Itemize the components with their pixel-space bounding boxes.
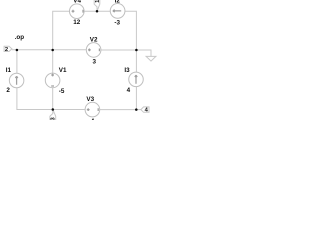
wire V1 branch lower	[52, 88, 54, 110]
wire V1 branch upper	[52, 50, 54, 73]
wire I1 branch lower + bottom rail left	[17, 88, 53, 110]
svg-text:4: 4	[127, 87, 131, 94]
svg-text:3: 3	[93, 58, 97, 65]
current source I1 symbol	[9, 73, 24, 88]
current source I2 symbol	[110, 4, 125, 19]
voltage source V1 symbol	[45, 73, 60, 88]
wire middle rail right: V2 to right junction	[101, 49, 136, 51]
junction node 3 dot	[52, 108, 55, 111]
svg-text:.op: .op	[15, 34, 25, 41]
junction right dot	[135, 49, 138, 52]
wire stub to flag4	[136, 109, 141, 111]
flag node 3 outline	[50, 110, 56, 122]
wire ground stub	[136, 50, 151, 56]
ground	[146, 56, 156, 61]
junction V1-top dot	[51, 49, 54, 52]
svg-text:12: 12	[73, 19, 81, 26]
wire bottom rail to V3	[53, 109, 85, 111]
flag node 4 outline	[141, 107, 149, 112]
svg-text:2: 2	[5, 47, 8, 53]
wire I3 branch lower	[135, 87, 137, 110]
svg-text:I2: I2	[115, 0, 121, 4]
svg-text:V2: V2	[90, 37, 98, 44]
svg-text:-3: -3	[114, 20, 120, 27]
svg-text:V1: V1	[59, 67, 67, 74]
flag node 1 outline	[94, 0, 100, 11]
wire V4 to I2 through node 1 junction	[84, 10, 110, 12]
svg-text:-5: -5	[59, 88, 65, 95]
svg-text:2: 2	[6, 87, 10, 94]
svg-text:4: 4	[91, 118, 95, 120]
voltage source V2 symbol	[86, 43, 101, 58]
current source I3 symbol	[129, 72, 144, 87]
wire top-left corner from V1 branch up and right to V4	[53, 11, 70, 50]
wire I2 to top-right corner down to right junction	[125, 11, 136, 50]
junction node 4 dot	[135, 108, 138, 111]
flag node 2 outline	[4, 46, 12, 51]
svg-text:I3: I3	[124, 67, 130, 74]
junction node 2 dot	[16, 49, 19, 52]
svg-text:I1: I1	[6, 67, 12, 74]
svg-text:1: 1	[95, 0, 101, 3]
wire V3 to bottom-right junction	[100, 109, 137, 111]
svg-text:V3: V3	[86, 96, 94, 103]
svg-text:V4: V4	[73, 0, 81, 5]
voltage source V3 symbol	[85, 102, 100, 117]
wire I3 branch upper	[135, 50, 137, 72]
wire middle rail left: flag2 to V2	[12, 49, 87, 51]
wire I1 branch upper	[16, 50, 18, 73]
junction node 1 dot	[96, 10, 99, 13]
voltage source V4 symbol	[70, 4, 85, 19]
